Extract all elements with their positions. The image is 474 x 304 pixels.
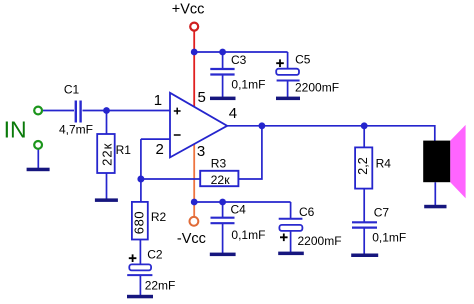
svg-text:C3: C3	[231, 53, 247, 67]
svg-text:-Vcc: -Vcc	[177, 231, 206, 247]
op-amp minus input mark	[174, 134, 181, 136]
svg-text:+Vcc: +Vcc	[172, 2, 205, 18]
ground under C5	[276, 97, 300, 101]
svg-text:1: 1	[154, 92, 162, 109]
svg-text:2200mF: 2200mF	[295, 81, 339, 95]
wire R2 bottom to C2	[139, 240, 141, 264]
wire R4 bottom to C7	[363, 189, 365, 222]
svg-text:0,1mF: 0,1mF	[231, 228, 265, 242]
ground under C6	[278, 252, 304, 256]
wire R1 bottom to ground	[106, 173, 108, 199]
capacitor C6 polarized plates	[279, 219, 303, 231]
svg-text:C7: C7	[374, 206, 390, 220]
capacitor C4 plates	[211, 218, 235, 224]
wire C6 to ground	[290, 230, 292, 253]
svg-text:R3: R3	[211, 156, 227, 170]
wire C1 to op-amp pin1	[83, 110, 171, 112]
svg-text:C5: C5	[295, 53, 311, 67]
svg-text:R4: R4	[376, 156, 392, 170]
ground under IN	[27, 168, 50, 172]
wire C5 down	[287, 52, 289, 69]
ground under C7	[351, 254, 378, 258]
capacitor C5 polarized plates	[276, 69, 299, 81]
node input junction C1/R1/pin1	[103, 107, 110, 114]
svg-text:C4: C4	[231, 203, 247, 217]
wire output to speaker	[227, 126, 435, 141]
svg-text:2200mF: 2200mF	[298, 234, 342, 248]
wire C4 to ground	[222, 224, 224, 254]
wire C3 to ground	[222, 75, 224, 98]
wire speaker to ground	[434, 182, 436, 206]
ground under C2	[127, 295, 153, 299]
wire R3 right to output	[239, 126, 262, 179]
svg-text:680: 680	[132, 211, 147, 235]
wire feedback node to R3 left	[141, 178, 201, 180]
speaker LS1 body	[423, 141, 450, 183]
wire C6 down	[290, 202, 292, 218]
node C4 junction	[219, 199, 226, 206]
ground under speaker	[424, 205, 446, 209]
wire IN ground stub	[37, 150, 39, 169]
svg-text:3: 3	[197, 143, 205, 160]
svg-text:4: 4	[229, 105, 237, 122]
node -Vcc rail junction	[191, 199, 198, 206]
wire +Vcc rail top	[194, 51, 287, 53]
svg-text:22к: 22к	[211, 173, 231, 187]
svg-text:0,1mF: 0,1mF	[372, 231, 406, 245]
svg-text:C1: C1	[64, 82, 80, 96]
op-amp plus input mark	[174, 108, 181, 115]
wire C4 branch	[222, 202, 224, 217]
svg-text:R2: R2	[151, 210, 167, 224]
wire -Vcc rail	[194, 201, 290, 203]
wire +Vcc red vertical	[193, 31, 195, 126]
ground under R1	[95, 198, 118, 202]
capacitor C1 plates	[76, 101, 81, 123]
plus mark C6	[280, 234, 288, 242]
node output R4 junction	[361, 122, 368, 129]
resistor R1	[97, 134, 115, 173]
wire -Vcc orange vertical	[193, 126, 195, 216]
terminal +Vcc	[190, 23, 198, 31]
node output feedback junction	[259, 122, 266, 129]
wire C7 to ground	[363, 228, 365, 254]
svg-text:C6: C6	[299, 205, 315, 219]
speaker LS1 cone	[450, 125, 465, 198]
capacitor C3 plates	[210, 69, 234, 75]
svg-text:2: 2	[156, 141, 164, 158]
capacitor C2 polarized plates	[127, 264, 152, 275]
svg-text:0,1mF: 0,1mF	[231, 78, 265, 92]
op-amp U1 triangle	[170, 93, 227, 158]
terminal -Vcc	[190, 217, 199, 226]
node inverting input junction	[137, 176, 144, 183]
svg-text:22mF: 22mF	[145, 278, 176, 292]
resistor R3	[200, 171, 238, 186]
wire C5 to ground	[287, 81, 289, 99]
svg-text:4,7mF: 4,7mF	[59, 122, 93, 136]
node junction dots	[103, 49, 368, 206]
ground under C4	[210, 253, 236, 257]
svg-text:22к: 22к	[99, 143, 114, 166]
wire pin2 down to R2	[140, 139, 142, 202]
svg-text:R1: R1	[116, 143, 132, 157]
wire input from IN terminal to C1	[38, 52, 435, 296]
capacitor C7 plates	[352, 222, 377, 227]
svg-text:C2: C2	[147, 248, 163, 262]
ground under C3	[210, 97, 236, 101]
resistor R4	[355, 147, 372, 188]
node +Vcc rail junction	[191, 49, 198, 56]
terminal IN signal	[34, 107, 42, 115]
node C3 junction	[219, 49, 226, 56]
wire C3 branch	[222, 52, 224, 69]
wire C2 to ground	[139, 275, 141, 296]
wire pin2 horizontal	[141, 138, 170, 140]
svg-text:2,2: 2,2	[356, 157, 370, 174]
wire R4 branch down	[363, 126, 365, 148]
plus mark C5	[276, 59, 284, 67]
svg-text:IN: IN	[4, 116, 27, 142]
svg-text:5: 5	[198, 89, 206, 106]
resistor R2	[132, 202, 148, 240]
plus mark C2	[129, 254, 137, 262]
terminal IN ground	[34, 141, 42, 149]
wire R1 branch down	[106, 111, 108, 135]
